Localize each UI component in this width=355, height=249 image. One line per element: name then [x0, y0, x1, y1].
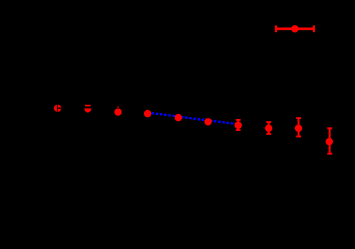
black overlay band on P3	[114, 108, 123, 109]
data point P2 with small error bar	[84, 105, 91, 112]
data point P9 with error bar	[295, 118, 302, 136]
data point P4	[144, 110, 151, 117]
data point P7 with error bar	[235, 120, 242, 130]
black overlay notch horizontal on P1	[58, 107, 64, 109]
data point P3 with stub	[114, 107, 121, 116]
legend sample: red errorbar line	[276, 25, 315, 32]
black overlay band on P2	[82, 106, 94, 108]
black overlay notch vertical on P1	[56, 101, 58, 116]
data point P6	[204, 118, 211, 125]
data point P10 with error bar	[326, 128, 333, 153]
data point P8 with error bar	[265, 122, 272, 134]
data point P5	[175, 114, 182, 121]
data point P1	[54, 105, 61, 112]
blue dashed fit line	[148, 113, 239, 125]
